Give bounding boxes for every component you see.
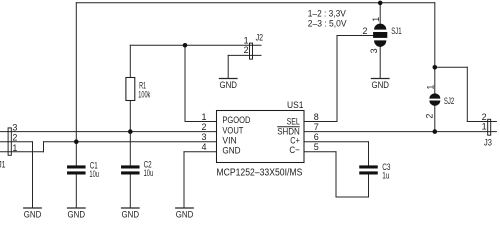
svg-text:US1: US1 xyxy=(287,100,304,110)
svg-text:1: 1 xyxy=(371,17,381,22)
svg-text:SJ1: SJ1 xyxy=(391,26,401,36)
svg-text:1: 1 xyxy=(482,122,487,132)
svg-text:2–3 : 5,0V: 2–3 : 5,0V xyxy=(308,18,347,29)
svg-text:3: 3 xyxy=(201,132,206,142)
svg-text:3: 3 xyxy=(369,48,379,53)
svg-text:C−: C− xyxy=(289,145,299,155)
svg-text:GND: GND xyxy=(176,210,194,220)
svg-text:2: 2 xyxy=(244,45,249,55)
svg-text:J3: J3 xyxy=(484,138,492,148)
svg-text:MCP1252–33X50I/MS: MCP1252–33X50I/MS xyxy=(216,167,302,178)
svg-text:GND: GND xyxy=(122,210,140,220)
svg-text:SEL: SEL xyxy=(287,116,300,126)
svg-text:2: 2 xyxy=(482,112,487,122)
svg-text:4: 4 xyxy=(201,142,206,152)
svg-text:SJ2: SJ2 xyxy=(444,96,454,106)
svg-text:PGOOD: PGOOD xyxy=(222,115,250,125)
svg-text:J1: J1 xyxy=(0,159,5,169)
svg-text:5: 5 xyxy=(314,142,319,152)
svg-text:VOUT: VOUT xyxy=(222,125,243,135)
svg-text:GND: GND xyxy=(222,146,240,156)
svg-text:GND: GND xyxy=(219,80,237,90)
svg-text:GND: GND xyxy=(371,80,389,90)
svg-text:GND: GND xyxy=(68,210,86,220)
svg-text:3: 3 xyxy=(12,123,17,133)
svg-text:1: 1 xyxy=(201,112,206,122)
svg-text:2: 2 xyxy=(424,114,434,119)
svg-text:10u: 10u xyxy=(89,169,99,179)
svg-text:1: 1 xyxy=(425,85,435,90)
svg-text:J2: J2 xyxy=(256,32,264,42)
svg-text:1: 1 xyxy=(244,35,249,45)
svg-text:C+: C+ xyxy=(290,136,300,146)
svg-text:2: 2 xyxy=(201,122,206,132)
svg-text:10u: 10u xyxy=(144,168,154,178)
svg-text:8: 8 xyxy=(314,112,319,122)
svg-text:VIN: VIN xyxy=(222,135,236,145)
svg-text:1u: 1u xyxy=(382,170,389,180)
svg-text:6: 6 xyxy=(314,132,319,142)
svg-text:1: 1 xyxy=(12,143,17,153)
svg-text:2: 2 xyxy=(362,26,367,36)
svg-text:GND: GND xyxy=(24,210,42,220)
svg-text:100k: 100k xyxy=(138,90,150,100)
svg-text:2: 2 xyxy=(12,133,17,143)
svg-text:7: 7 xyxy=(314,122,319,132)
